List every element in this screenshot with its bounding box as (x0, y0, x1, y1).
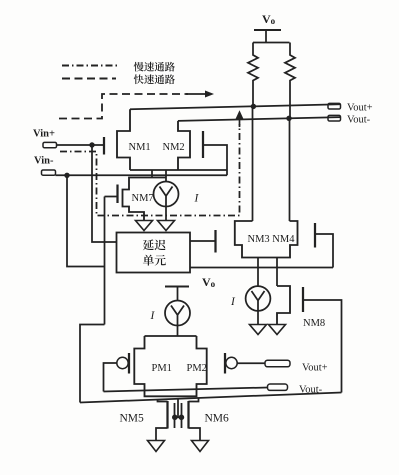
wire: NM8 gate to bottom rail loop (304, 300, 342, 393)
pad: Vout+ terminal (top) (328, 103, 341, 109)
wire: PM2 gate to Vout+ pad (237, 362, 265, 364)
pad: Vout- terminal (top) (328, 115, 341, 121)
svg-text:Vin-: Vin- (34, 156, 54, 167)
svg-text:Vin+: Vin+ (33, 129, 55, 140)
wire: delay out2 long wire to NM4 gate (190, 267, 333, 269)
transistor NM6 gate bar (181, 403, 183, 428)
svg-text:NM3 NM4: NM3 NM4 (248, 234, 296, 245)
wire: NM5/NM6 gate stub (177, 399, 179, 418)
wire: to PM pair top (177, 326, 179, 337)
svg-text:NM6: NM6 (205, 413, 230, 425)
wire: NM4 drain up to Vout- (289, 118, 291, 221)
svg-text:PM1: PM1 (152, 363, 172, 374)
node: NM6 gate dot (179, 415, 185, 421)
wire: right current source to ground (257, 311, 259, 325)
slow path up arrow (239, 117, 241, 127)
wire: bottom rail (80, 393, 342, 403)
wire: NM3/NM4 source stubs (257, 258, 259, 287)
pad: Vout- terminal (lower) (268, 384, 288, 390)
svg-text:PM2: PM2 (187, 363, 207, 374)
legend: fast path dashed line (62, 78, 116, 80)
node: NM5 gate dot (172, 415, 178, 421)
svg-text:NM8: NM8 (303, 318, 325, 329)
PM1 gate bubble (117, 357, 128, 368)
arrow into delay unit (left) (136, 221, 153, 231)
svg-text:Vout+: Vout+ (302, 363, 328, 374)
node: Vin+ junction dot (89, 142, 94, 147)
svg-text:NM2: NM2 (163, 142, 185, 153)
arrow into delay unit (right) (158, 221, 175, 231)
wire: resistor top rail (253, 42, 290, 44)
node: Vout- junction dot (286, 116, 291, 121)
ground (NM5) (148, 441, 165, 452)
wire: NM7 gate / Vin- vertical run (104, 197, 106, 325)
transistor NM5 channel and stubs (166, 401, 168, 429)
wire: Vin- branch to NM7 gate line (67, 175, 105, 266)
transistor NM4 gate bar (314, 223, 316, 248)
transistor NM2 gate bar (202, 131, 204, 158)
pad: Vin- terminal (42, 170, 56, 175)
wire: tail node stubs (151, 170, 153, 178)
transistor pair NM3 NM4 block outline (235, 221, 298, 258)
resistor R1 (left load) (248, 43, 258, 107)
pad: Vout+ terminal (lower) (265, 360, 290, 367)
ground (NM6) (192, 441, 209, 452)
node: Vin- junction dot (64, 173, 69, 178)
wire: Vin+ to NM1 gate (57, 144, 104, 146)
transistor PM1 gate bar (128, 353, 130, 374)
svg-text:Vout+: Vout+ (347, 103, 373, 114)
transistor NM7 block outline (123, 178, 167, 221)
slow path dash-dot route (60, 124, 240, 216)
transistor pair NM1 NM2 block outline (117, 109, 130, 170)
transistor NM8 gate bar (302, 287, 304, 312)
transistor NM1 gate bar (103, 137, 105, 155)
svg-text:Vout-: Vout- (347, 115, 371, 126)
transistor PM2 gate bar (224, 353, 226, 374)
wire: Vout- line (lower) (104, 388, 268, 392)
legend: slow path dash-dot line (62, 65, 118, 67)
wire: delay out to NM3 gate (190, 240, 215, 242)
wire: Vin- line to NM2 gate loop (56, 174, 228, 176)
svg-text:NM7: NM7 (132, 193, 154, 204)
wire: NM4 gate loop (316, 234, 333, 268)
wire: Vout- line (top) (178, 117, 341, 121)
transistor NM5 gate bar (174, 403, 176, 428)
PM2 gate bubble (226, 357, 237, 368)
transistor NM6 channel and stubs (187, 401, 189, 429)
current source I (right) (246, 286, 271, 311)
transistor pair PM1 PM2 block outline (134, 336, 206, 396)
wire: NM3 drain up to Vout+ (252, 106, 254, 221)
transistor NM7 gate bar (116, 185, 118, 204)
pad: Vin+ terminal (43, 142, 57, 147)
ground (right current source) (250, 325, 267, 335)
svg-text:NM1: NM1 (129, 142, 151, 153)
power supply Vo bar (top) (254, 29, 281, 31)
svg-text:NM5: NM5 (120, 413, 145, 425)
delay unit box 延迟单元 (117, 233, 191, 273)
transistor NM3 gate bar (214, 230, 216, 253)
ground (NM8) (269, 325, 286, 335)
wire: current source to delay unit (165, 207, 167, 221)
power supply Vo bar (lower) (165, 286, 189, 288)
wire: PM1 gate to Vout- line (104, 363, 117, 392)
wire: Vout+ line (top) (130, 104, 341, 109)
current source I (tail) (154, 182, 179, 207)
fast path dashed route with arrow (59, 94, 188, 119)
wire: NM7 gate (105, 196, 118, 198)
transistor NM8 channel (277, 286, 290, 325)
legend label 慢速通路 (134, 62, 144, 72)
legend label 快速通路 (134, 74, 144, 84)
node: Vout+ junction dot (251, 104, 256, 109)
resistor R2 (right load) (285, 43, 295, 119)
current source I (left lower) (165, 301, 190, 326)
wire: NM2 gate to Vin- (204, 145, 227, 175)
wire: Vin+ branch down to delay unit input (92, 145, 117, 242)
wire: left loop jog (80, 325, 105, 403)
